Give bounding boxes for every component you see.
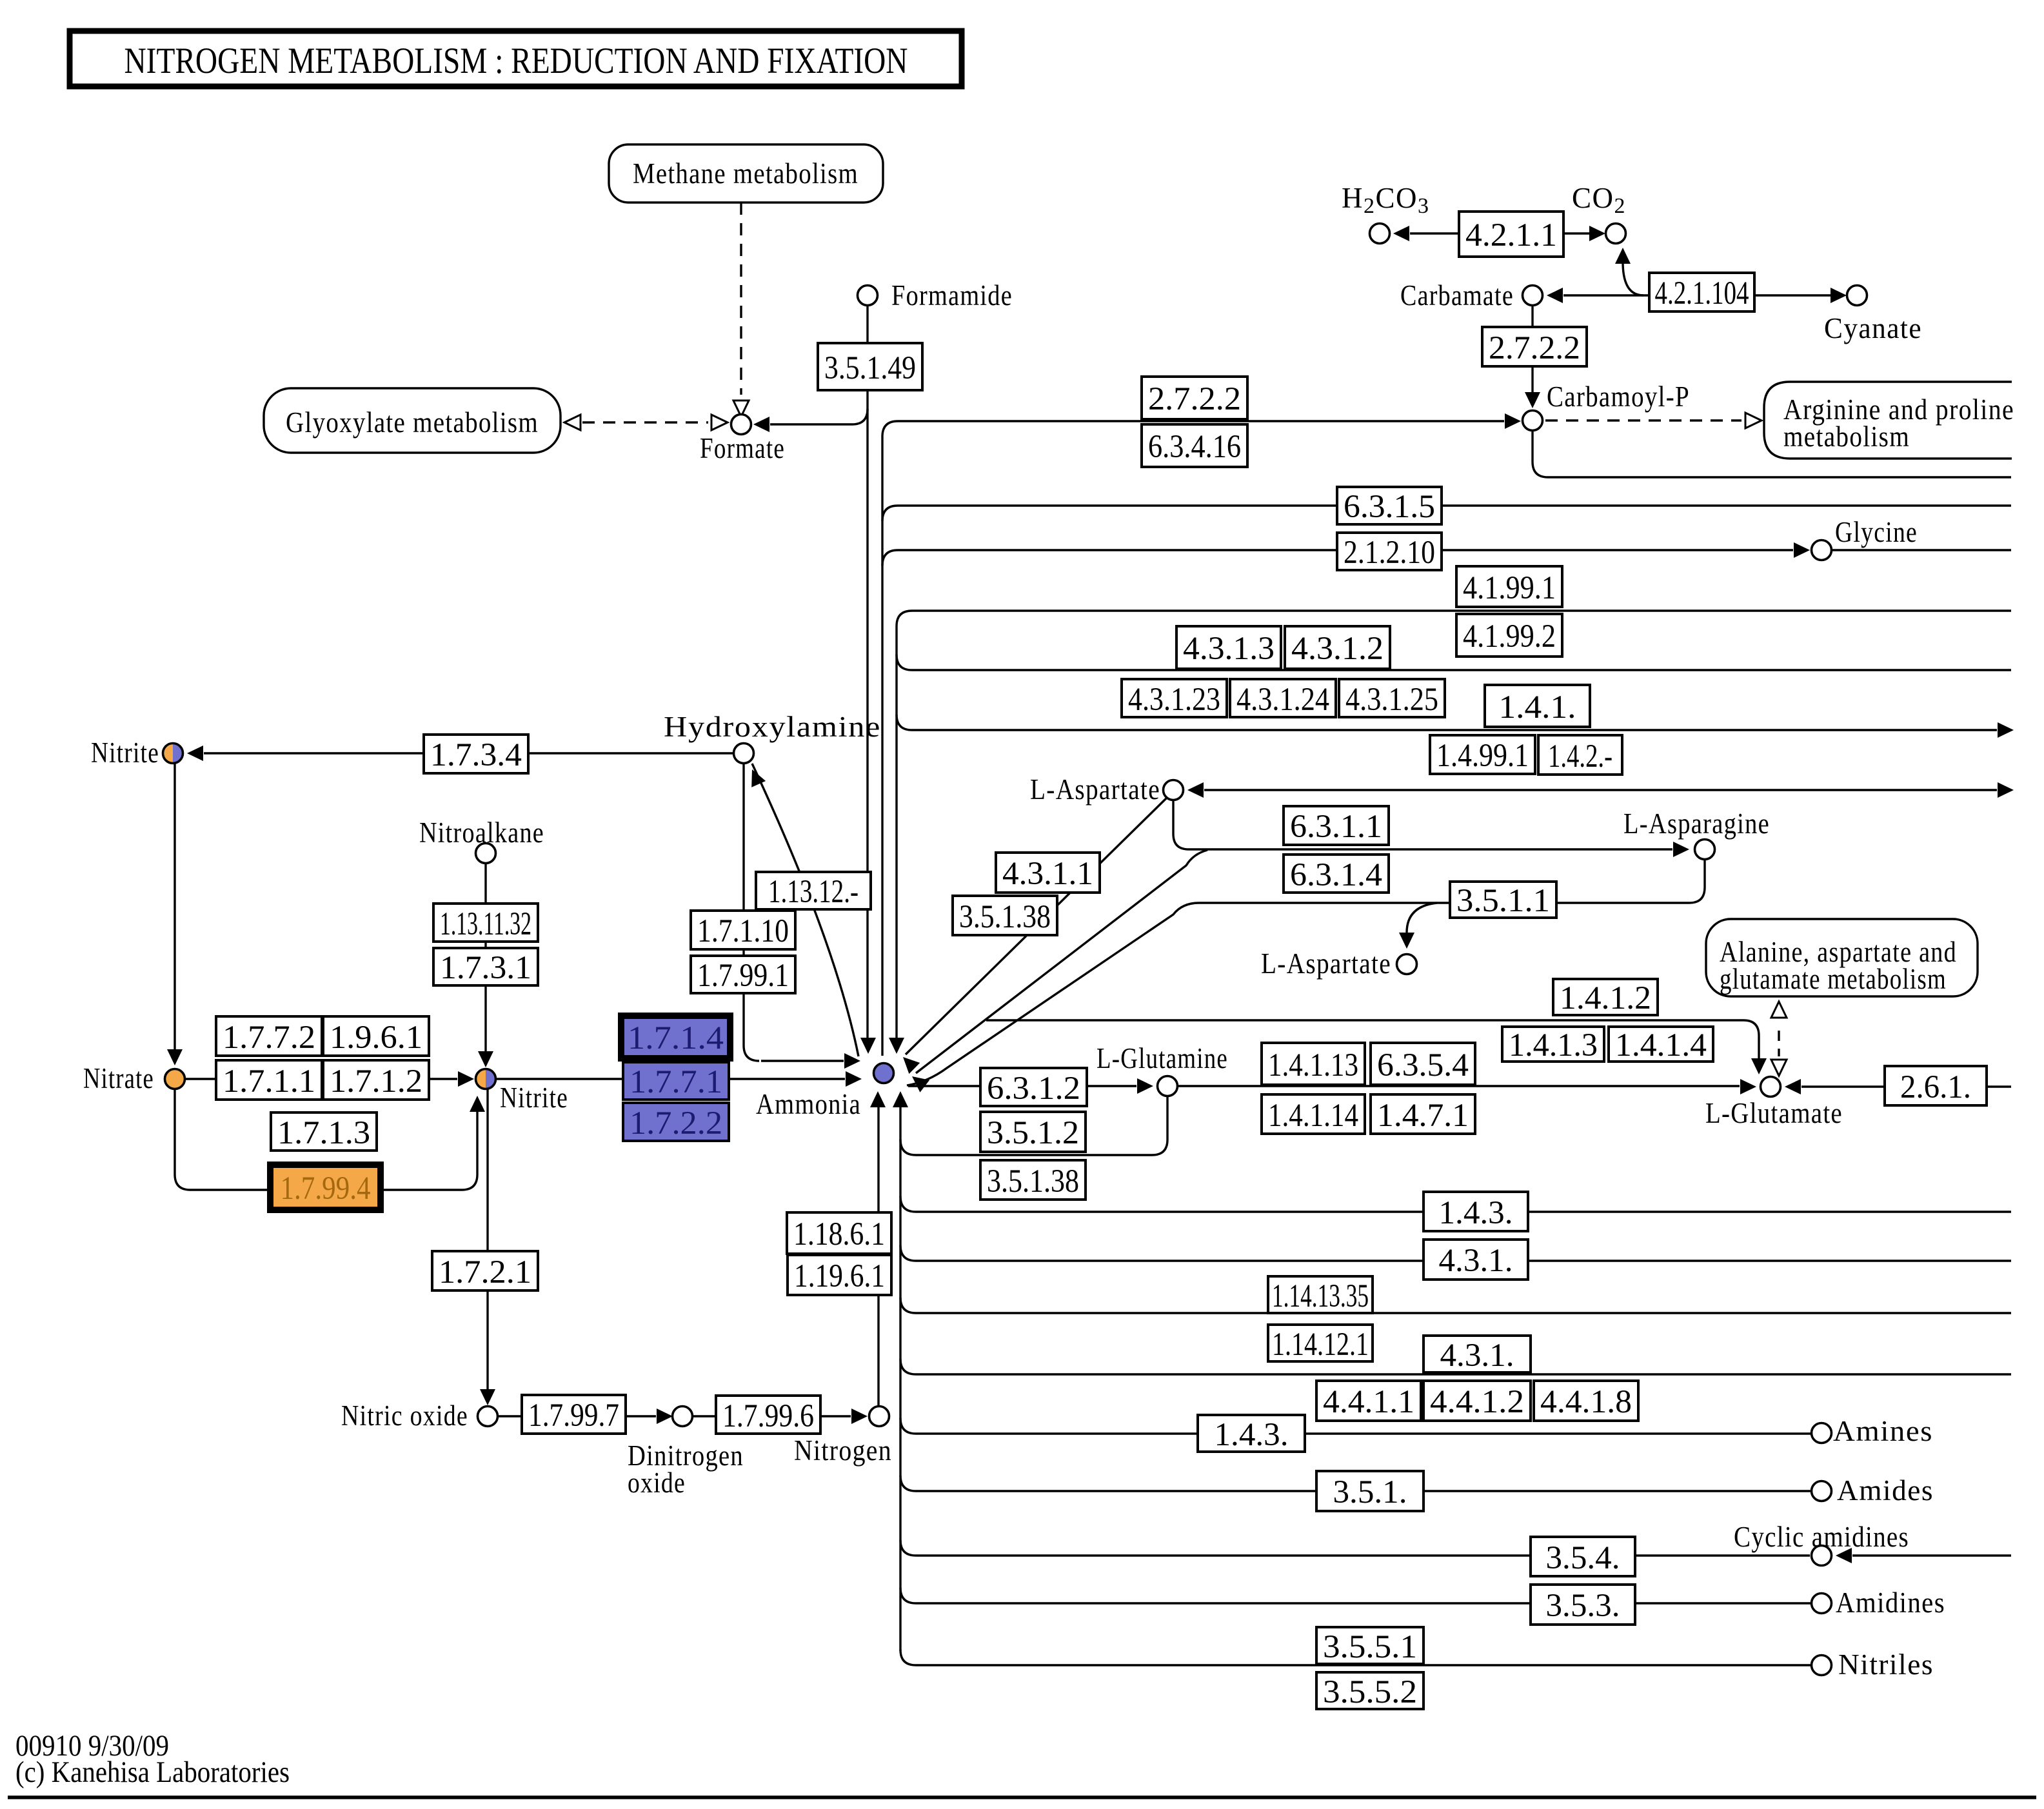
svg-text:Nitrite: Nitrite bbox=[91, 736, 159, 769]
svg-text:4.3.1.23: 4.3.1.23 bbox=[1128, 682, 1220, 718]
svg-text:Glyoxylate metabolism: Glyoxylate metabolism bbox=[286, 406, 539, 439]
svg-text:1.4.1.4: 1.4.1.4 bbox=[1615, 1027, 1707, 1063]
svg-text:4.1.99.2: 4.1.99.2 bbox=[1463, 618, 1556, 655]
svg-text:1.7.3.1: 1.7.3.1 bbox=[440, 950, 531, 986]
arrow trunk3 into Ammonia bbox=[889, 1038, 904, 1054]
svg-text:1.19.6.1: 1.19.6.1 bbox=[794, 1258, 885, 1294]
wire Carbamoyl-P down to right edge bbox=[1533, 431, 2011, 477]
node Arginine and proline metabolism bbox=[1764, 382, 2012, 459]
enzyme box 3.5.4. bbox=[1531, 1537, 1635, 1576]
enzyme box 1.4.2.- bbox=[1538, 735, 1622, 775]
enzyme box 4.3.1.23 bbox=[1122, 679, 1227, 717]
svg-text:L-Aspartate: L-Aspartate bbox=[1030, 773, 1160, 806]
svg-text:1.4.1.13: 1.4.1.13 bbox=[1268, 1047, 1358, 1083]
enzyme box 3.5.1.2 bbox=[980, 1112, 1086, 1152]
open arrow into Glyoxylate box bbox=[564, 415, 580, 430]
svg-text:L-Glutamine: L-Glutamine bbox=[1096, 1042, 1228, 1074]
enzyme box 4.1.99.2 bbox=[1456, 614, 1562, 657]
wire 4.2.1.1 to CO2 bbox=[1563, 232, 1589, 234]
compound Formate bbox=[731, 415, 751, 435]
arrow up into CO2 from cyanate line bbox=[1615, 248, 1631, 264]
wire between boxes bbox=[742, 949, 744, 956]
wire 1.7.3.1 down to Nitrite bbox=[484, 985, 486, 1056]
svg-text:3.5.1.: 3.5.1. bbox=[1333, 1474, 1407, 1510]
svg-text:Nitriles: Nitriles bbox=[1838, 1648, 1934, 1681]
enzyme box 1.9.6.1 bbox=[323, 1016, 429, 1056]
svg-text:glutamate metabolism: glutamate metabolism bbox=[1720, 963, 1947, 995]
wire Formate to vertical bbox=[770, 409, 868, 424]
node Alanine aspartate and glutamate metabolism bbox=[1706, 919, 1978, 996]
svg-text:4.3.1.25: 4.3.1.25 bbox=[1345, 682, 1438, 718]
wire to Nitrogen arrow bbox=[820, 1415, 851, 1417]
enzyme box 3.5.1.38 lower bbox=[980, 1160, 1086, 1200]
wire trunk2 x1368 bbox=[881, 437, 883, 1056]
arrow into L-Glutamate from left bbox=[1740, 1079, 1756, 1094]
compound Nitric oxide bbox=[478, 1407, 498, 1427]
svg-text:1.7.1.4: 1.7.1.4 bbox=[628, 1020, 724, 1056]
svg-text:1.14.12.1: 1.14.12.1 bbox=[1272, 1327, 1369, 1363]
svg-text:3.5.1.38: 3.5.1.38 bbox=[987, 1163, 1079, 1200]
enzyme box 6.3.4.16 bbox=[1142, 424, 1247, 467]
wire 2.6.1. right bbox=[1987, 1085, 2011, 1087]
compound L-Glutamine bbox=[1158, 1076, 1178, 1096]
svg-text:2.7.2.2: 2.7.2.2 bbox=[1148, 381, 1241, 417]
enzyme box 4.3.1. lower bbox=[1424, 1336, 1531, 1372]
svg-text:1.14.13.35: 1.14.13.35 bbox=[1272, 1278, 1369, 1314]
compound Cyclic amidines bbox=[1812, 1546, 1832, 1566]
svg-text:Nitrate: Nitrate bbox=[83, 1062, 154, 1094]
arrow into Nitrogen bbox=[851, 1409, 868, 1424]
svg-text:3.5.3.: 3.5.3. bbox=[1546, 1588, 1620, 1624]
wire L-Aspartate down to row1317 bbox=[1173, 800, 1672, 849]
enzyme box 1.7.2.1 bbox=[432, 1251, 538, 1290]
wire 1.18.6.1 up to hub bbox=[877, 1100, 879, 1212]
svg-text:1.7.99.4: 1.7.99.4 bbox=[281, 1171, 371, 1207]
wire curve cyanate line to CO2 arrow bbox=[1623, 262, 1643, 295]
wire row653 from trunk2 bbox=[882, 421, 1504, 437]
svg-text:2.1.2.10: 2.1.2.10 bbox=[1344, 535, 1435, 571]
svg-text:Cyanate: Cyanate bbox=[1824, 312, 1922, 344]
wire row947 bbox=[897, 611, 2011, 626]
enzyme box 1.4.99.1 bbox=[1430, 735, 1535, 774]
svg-text:1.4.1.2: 1.4.1.2 bbox=[1560, 980, 1651, 1016]
svg-text:3.5.1.2: 3.5.1.2 bbox=[987, 1115, 1079, 1151]
wire fan row y2036 bbox=[900, 1298, 2011, 1313]
wire fan row y1955 bbox=[900, 1245, 2011, 1261]
svg-text:1.7.3.4: 1.7.3.4 bbox=[430, 737, 522, 773]
arrow into L-Glutamate from right bbox=[1785, 1079, 1801, 1094]
enzyme box 1.4.3. upper bbox=[1424, 1192, 1528, 1231]
svg-text:1.4.1.: 1.4.1. bbox=[1499, 689, 1576, 726]
svg-text:3.5.5.1: 3.5.5.1 bbox=[1323, 1629, 1417, 1665]
wire trunk5 x1396 bbox=[899, 1100, 901, 1651]
svg-text:1.4.1.3: 1.4.1.3 bbox=[1509, 1027, 1598, 1063]
svg-text:4.3.1.24: 4.3.1.24 bbox=[1236, 682, 1329, 718]
compound Nitroalkane bbox=[476, 844, 496, 864]
compound Hydroxylamine bbox=[734, 744, 754, 764]
wire dashed Carbamoyl-P to Arginine bbox=[1545, 419, 1741, 421]
arrow row1582 into L-Glutamate bbox=[1751, 1058, 1767, 1074]
open arrow up to Alanine box bbox=[1771, 1002, 1787, 1018]
arrow into Dinitrogen oxide bbox=[657, 1409, 673, 1424]
enzyme box 4.4.1.8 bbox=[1534, 1381, 1638, 1421]
wire L-Asparagine down to row1400 bbox=[907, 860, 1705, 1085]
enzyme box 4.2.1.1 bbox=[1459, 212, 1563, 257]
enzyme box 1.7.99.4 highlighted bbox=[270, 1165, 381, 1210]
open arrow into Arginine box bbox=[1745, 413, 1761, 428]
enzyme box 1.14.12.1 bbox=[1268, 1325, 1373, 1361]
wire branch to L-Aspartate lower bbox=[1407, 903, 1437, 936]
arrow into L-Glutamine bbox=[1137, 1078, 1153, 1094]
svg-text:Ammonia: Ammonia bbox=[756, 1088, 861, 1120]
wire row784 6.3.1.5 bbox=[882, 506, 2011, 521]
wire L-Glutamine to L-Glutamate bbox=[1178, 1085, 1740, 1087]
enzyme box 1.7.1.4 highlighted bbox=[621, 1016, 730, 1058]
wire Nitrite mid to blue boxes bbox=[496, 1078, 623, 1080]
enzyme box 4.3.1.24 bbox=[1230, 679, 1336, 717]
compound H2CO3 bbox=[1370, 224, 1390, 244]
svg-text:1.4.2.-: 1.4.2.- bbox=[1548, 738, 1612, 775]
wire row1582 bbox=[986, 1020, 1759, 1063]
compound Glycine bbox=[1812, 540, 1832, 560]
enzyme box 1.7.2.2 highlighted bbox=[623, 1103, 729, 1141]
svg-text:4.3.1.1: 4.3.1.1 bbox=[1002, 856, 1093, 892]
svg-text:Amidines: Amidines bbox=[1836, 1587, 1945, 1619]
enzyme box 6.3.1.5 bbox=[1337, 487, 1442, 524]
compound L-Asparagine bbox=[1695, 840, 1715, 860]
arrow into Cyclic amidines bbox=[1836, 1548, 1852, 1563]
arrow into L-Aspartate lower bbox=[1399, 933, 1414, 949]
compound Amides bbox=[1812, 1481, 1832, 1501]
svg-text:4.3.1.: 4.3.1. bbox=[1439, 1243, 1513, 1279]
arrow trunk1 into Ammonia bbox=[860, 1038, 876, 1054]
svg-text:1.4.3.: 1.4.3. bbox=[1439, 1195, 1513, 1231]
compound L-Glutamate bbox=[1761, 1077, 1781, 1097]
wire row1168 left bbox=[204, 752, 424, 754]
svg-text:1.7.2.2: 1.7.2.2 bbox=[630, 1105, 722, 1142]
arrow into L-Asparagine bbox=[1673, 842, 1689, 857]
compound Carbamate bbox=[1523, 286, 1543, 306]
svg-text:1.7.1.3: 1.7.1.3 bbox=[277, 1115, 370, 1151]
svg-text:1.18.6.1: 1.18.6.1 bbox=[793, 1216, 885, 1252]
arrow into CO2 bbox=[1589, 226, 1605, 241]
wire diagonal A hub to L-Aspartate bbox=[906, 798, 1166, 1054]
svg-text:2.6.1.: 2.6.1. bbox=[1900, 1069, 1971, 1105]
wire L-Aspartate row right bbox=[1204, 789, 1997, 791]
svg-text:Methane metabolism: Methane metabolism bbox=[633, 157, 858, 190]
svg-text:NITROGEN METABOLISM : REDUCTI: NITROGEN METABOLISM : REDUCTION AND FIXA… bbox=[124, 41, 908, 81]
svg-text:6.3.1.1: 6.3.1.1 bbox=[1290, 809, 1382, 845]
enzyme box 4.2.1.104 bbox=[1649, 273, 1754, 311]
enzyme box 2.6.1. bbox=[1885, 1066, 1987, 1105]
wire Hydroxylamine down bbox=[742, 764, 744, 911]
svg-text:1.7.1.1: 1.7.1.1 bbox=[223, 1063, 315, 1100]
compound L-Aspartate upper bbox=[1164, 780, 1184, 800]
wire fan row y2312 bbox=[900, 1476, 1811, 1491]
svg-text:1.4.1.14: 1.4.1.14 bbox=[1268, 1098, 1358, 1134]
svg-text:1.4.3.: 1.4.3. bbox=[1215, 1417, 1289, 1453]
arrow into Nitric oxide bbox=[480, 1389, 495, 1405]
wire dashed Glyoxylate-Formate bbox=[582, 421, 708, 423]
arrow into Glycine bbox=[1794, 542, 1810, 558]
svg-text:1.7.1.10: 1.7.1.10 bbox=[697, 913, 789, 949]
arrow into Formate from right bbox=[753, 417, 769, 432]
wire row1645 into hub bbox=[761, 1060, 844, 1062]
wire H2CO3 to 4.2.1.1 bbox=[1410, 232, 1459, 234]
wire fan row y2131 bbox=[900, 1359, 2011, 1374]
enzyme box 3.5.1.49 bbox=[818, 343, 922, 390]
svg-text:Amides: Amides bbox=[1837, 1474, 1934, 1507]
svg-text:1.7.7.1: 1.7.7.1 bbox=[630, 1064, 722, 1100]
enzyme box 6.3.1.2 bbox=[980, 1068, 1087, 1106]
svg-text:oxide: oxide bbox=[628, 1467, 686, 1499]
svg-text:3.5.1.49: 3.5.1.49 bbox=[824, 350, 916, 386]
enzyme box 1.7.1.10 bbox=[691, 911, 795, 949]
enzyme box 1.13.12.- bbox=[756, 872, 871, 909]
enzyme box 3.5.1. bbox=[1316, 1471, 1424, 1511]
enzyme box 1.13.11.32 bbox=[433, 904, 538, 942]
wire trunk3 x1390 bbox=[895, 626, 897, 1043]
wire 1.7.2.1 down bbox=[486, 1290, 488, 1394]
enzyme box 1.7.1.3 bbox=[271, 1112, 377, 1151]
compound Amines bbox=[1812, 1423, 1832, 1443]
wire Carbamate down bbox=[1531, 306, 1533, 327]
wire Dinitrogen to 1.7.99.6 bbox=[693, 1415, 716, 1417]
svg-text:metabolism: metabolism bbox=[1783, 420, 1910, 453]
bottom rule bbox=[8, 1795, 2036, 1799]
arrow below-hub right up bbox=[893, 1091, 908, 1107]
wire Formamide to box bbox=[866, 306, 868, 343]
compound Amidines bbox=[1812, 1594, 1832, 1614]
wire 1.7.99.1 down to hub row bbox=[744, 993, 759, 1061]
wire 4.2.1.104 to Cyanate bbox=[1754, 294, 1831, 296]
svg-text:4.4.1.8: 4.4.1.8 bbox=[1540, 1384, 1632, 1420]
svg-text:Formate: Formate bbox=[700, 432, 785, 464]
wire row1039 bbox=[897, 655, 2011, 670]
enzyme box 1.14.13.35 bbox=[1268, 1276, 1373, 1313]
arrow diagA into hub bbox=[903, 1057, 920, 1074]
svg-text:6.3.1.4: 6.3.1.4 bbox=[1290, 857, 1382, 893]
arrow into H2CO3 bbox=[1393, 226, 1409, 241]
wire diagonal 1.13.12 line bbox=[752, 764, 858, 1056]
wire L-Glutamine down to row1791 bbox=[900, 1096, 1167, 1155]
svg-text:6.3.1.2: 6.3.1.2 bbox=[987, 1071, 1080, 1107]
arrow into Nitrite mid from top bbox=[478, 1051, 493, 1067]
compound L-Aspartate lower bbox=[1397, 954, 1417, 974]
enzyme box 2.1.2.10 bbox=[1337, 533, 1442, 570]
compound Cyanate bbox=[1847, 286, 1867, 306]
enzyme box 1.7.99.1 bbox=[691, 956, 795, 993]
svg-text:1.13.11.32: 1.13.11.32 bbox=[440, 906, 531, 942]
enzyme box 1.4.1.2 bbox=[1553, 979, 1658, 1015]
compound Nitrate bbox=[165, 1069, 185, 1089]
svg-text:6.3.5.4: 6.3.5.4 bbox=[1377, 1047, 1469, 1083]
svg-text:6.3.1.5: 6.3.1.5 bbox=[1344, 489, 1435, 525]
enzyme box 1.7.1.2 bbox=[323, 1060, 429, 1100]
compound Nitrite top-left bbox=[163, 744, 173, 764]
svg-text:Hydroxylamine: Hydroxylamine bbox=[664, 711, 881, 743]
arrow row1645 into hub bbox=[844, 1053, 860, 1069]
node Glyoxylate metabolism bbox=[264, 388, 561, 453]
wire diagonal B row1317 to hub bbox=[916, 850, 1207, 1073]
enzyme box 1.7.7.1 highlighted bbox=[623, 1062, 729, 1100]
wire Cyclic amidines right bbox=[1852, 1554, 2011, 1556]
svg-text:1.4.99.1: 1.4.99.1 bbox=[1436, 738, 1529, 774]
compound Dinitrogen oxide bbox=[673, 1407, 693, 1427]
enzyme box 1.7.99.7 bbox=[522, 1395, 626, 1434]
enzyme box 4.3.1.25 bbox=[1339, 679, 1445, 717]
svg-text:1.7.99.7: 1.7.99.7 bbox=[528, 1398, 619, 1434]
enzyme box 3.5.1.1 bbox=[1450, 882, 1556, 918]
arrow into Cyanate bbox=[1831, 288, 1847, 303]
compound Ammonia hub bbox=[874, 1063, 894, 1083]
svg-text:L-Glutamate: L-Glutamate bbox=[1705, 1097, 1843, 1129]
arrow row653 into Carbamoyl-P bbox=[1505, 413, 1521, 429]
wire fan row y2412 bbox=[900, 1540, 1810, 1556]
compound Carbamoyl-P bbox=[1523, 411, 1543, 431]
enzyme box 2.7.2.2 upper bbox=[1482, 327, 1587, 366]
wire 2.6.1. to L-Glutamate bbox=[1801, 1085, 1885, 1087]
wire fan row y1879 bbox=[900, 1196, 2011, 1212]
wire blue boxes to hub bbox=[729, 1078, 845, 1080]
enzyme box 4.3.1.3 bbox=[1176, 626, 1281, 669]
enzyme box 1.4.1.13 bbox=[1262, 1043, 1365, 1085]
svg-text:Carbamoyl-P: Carbamoyl-P bbox=[1547, 381, 1690, 413]
title box bbox=[70, 31, 962, 86]
svg-text:Formamide: Formamide bbox=[891, 279, 1013, 311]
svg-text:3.5.5.2: 3.5.5.2 bbox=[1323, 1674, 1417, 1710]
svg-text:L-Asparagine: L-Asparagine bbox=[1623, 807, 1770, 840]
arrow into Nitrite TL bbox=[187, 746, 203, 761]
enzyme box 1.7.1.1 bbox=[216, 1060, 322, 1100]
enzyme box 4.3.1.2 bbox=[1285, 626, 1390, 669]
wire Glycine right bbox=[1832, 549, 2011, 551]
wire trunk1 x1345 to hub bbox=[866, 390, 868, 1043]
svg-text:(c) Kanehisa Laboratories: (c) Kanehisa Laboratories bbox=[15, 1755, 290, 1789]
svg-text:Nitrogen: Nitrogen bbox=[794, 1434, 892, 1467]
svg-text:Carbamate: Carbamate bbox=[1400, 279, 1514, 311]
arrow diagB into hub bbox=[912, 1076, 929, 1092]
wire dashed Alanine to L-Glutamate bbox=[1778, 1031, 1780, 1056]
compound Nitrite mid bbox=[475, 1069, 486, 1089]
enzyme box 1.4.1. bbox=[1485, 685, 1590, 727]
svg-text:1.7.2.1: 1.7.2.1 bbox=[439, 1254, 531, 1290]
svg-text:4.2.1.1: 4.2.1.1 bbox=[1465, 217, 1557, 253]
svg-text:4.2.1.104: 4.2.1.104 bbox=[1655, 275, 1749, 311]
wire dashed Methane to Formate bbox=[740, 203, 742, 395]
enzyme box 4.3.1. upper bbox=[1424, 1240, 1528, 1280]
wire row1168 right bbox=[528, 752, 733, 754]
enzyme box 1.4.1.3 bbox=[1502, 1027, 1604, 1062]
wire row1684 bbox=[908, 1085, 1136, 1087]
wire 1.7.99.4 to Nitrite mid bbox=[384, 1107, 477, 1190]
arrow into Carbamoyl-P from top bbox=[1525, 392, 1540, 408]
enzyme box 1.4.3. lower bbox=[1198, 1415, 1305, 1452]
wire Nitroalkane down bbox=[484, 864, 486, 904]
enzyme box 4.4.1.2 bbox=[1424, 1381, 1531, 1421]
svg-text:L-Aspartate: L-Aspartate bbox=[1261, 947, 1391, 980]
arrow into Carbamate bbox=[1547, 288, 1563, 303]
svg-text:1.7.7.2: 1.7.7.2 bbox=[223, 1020, 315, 1056]
wire Carbamate to 4.2.1.104 bbox=[1563, 294, 1649, 296]
arrow L-Aspartate row right end bbox=[1998, 782, 2014, 798]
node Methane metabolism bbox=[609, 144, 883, 203]
enzyme box 6.3.1.4 bbox=[1284, 855, 1389, 893]
open arrow into Formate from Methane bbox=[733, 400, 749, 417]
svg-text:3.5.1.1: 3.5.1.1 bbox=[1456, 883, 1550, 919]
svg-text:Amines: Amines bbox=[1833, 1415, 1933, 1447]
svg-text:1.7.1.2: 1.7.1.2 bbox=[330, 1063, 422, 1100]
wire fan row y2486 bbox=[900, 1588, 1811, 1603]
svg-text:4.4.1.2: 4.4.1.2 bbox=[1430, 1384, 1524, 1420]
enzyme box 1.4.1.4 bbox=[1609, 1027, 1713, 1062]
arrow row1673 into hub bbox=[846, 1071, 862, 1087]
wire 2.7.2.2 to arrow bbox=[1531, 366, 1533, 397]
svg-text:1.7.99.6: 1.7.99.6 bbox=[722, 1398, 814, 1434]
svg-text:1.9.6.1: 1.9.6.1 bbox=[330, 1020, 422, 1056]
wire fan row y2223 bbox=[900, 1418, 1811, 1434]
compound CO2 bbox=[1606, 224, 1626, 244]
svg-text:1.7.99.1: 1.7.99.1 bbox=[697, 958, 789, 994]
enzyme box 1.19.6.1 bbox=[788, 1255, 891, 1295]
enzyme box 2.7.2.2 left bbox=[1142, 377, 1247, 419]
wire row1132 bbox=[897, 715, 1997, 730]
open arrow down into L-Glutamate bbox=[1771, 1060, 1787, 1076]
arrow into Nitrate from top bbox=[167, 1049, 183, 1065]
enzyme box 4.4.1.1 bbox=[1316, 1381, 1421, 1421]
enzyme box 1.4.7.1 bbox=[1371, 1094, 1475, 1134]
enzyme box 3.5.5.2 bbox=[1316, 1672, 1424, 1709]
arrow into L-Aspartate from right bbox=[1187, 782, 1204, 798]
wire Nitrate down to 1.7.99.4 bbox=[175, 1089, 267, 1190]
arrow into Nitrite mid bbox=[458, 1071, 474, 1087]
svg-text:1.13.12.-: 1.13.12.- bbox=[768, 874, 858, 910]
wire Nitric oxide to 1.7.99.7 bbox=[498, 1415, 522, 1417]
wire Nitrogen up bbox=[877, 1295, 879, 1406]
wire between boxes2 bbox=[484, 942, 486, 948]
svg-text:4.4.1.1: 4.4.1.1 bbox=[1323, 1384, 1414, 1420]
enzyme box 3.5.3. bbox=[1531, 1585, 1635, 1625]
svg-text:4.3.1.2: 4.3.1.2 bbox=[1291, 631, 1384, 667]
enzyme box 1.4.1.14 bbox=[1262, 1094, 1365, 1134]
svg-text:Nitric oxide: Nitric oxide bbox=[341, 1399, 468, 1432]
compound Nitrogen bbox=[869, 1407, 889, 1427]
arrow below-hub left up bbox=[870, 1091, 886, 1107]
enzyme box 6.3.5.4 bbox=[1371, 1043, 1475, 1085]
svg-text:3.5.4.: 3.5.4. bbox=[1546, 1540, 1620, 1576]
arrow 1.7.99.4 into Nitrite mid bbox=[470, 1096, 485, 1112]
enzyme box 1.7.3.1 bbox=[433, 948, 538, 985]
enzyme box 1.7.7.2 bbox=[216, 1016, 322, 1056]
enzyme box 4.1.99.1 bbox=[1456, 566, 1562, 607]
enzyme box 6.3.1.1 bbox=[1284, 806, 1389, 845]
svg-text:4.1.99.1: 4.1.99.1 bbox=[1463, 570, 1556, 606]
svg-text:Nitrite: Nitrite bbox=[500, 1082, 568, 1114]
svg-text:2.7.2.2: 2.7.2.2 bbox=[1489, 330, 1580, 366]
wire Nitrate to boxes bbox=[185, 1078, 216, 1080]
enzyme box 4.3.1.1 bbox=[996, 853, 1100, 893]
svg-text:4.3.1.: 4.3.1. bbox=[1440, 1338, 1514, 1374]
open arrow toward Formate bbox=[711, 415, 728, 430]
wire to Dinitrogen arrow bbox=[626, 1415, 656, 1417]
compound Formamide bbox=[858, 286, 878, 306]
enzyme box 1.18.6.1 bbox=[787, 1212, 891, 1254]
svg-text:1.4.7.1: 1.4.7.1 bbox=[1377, 1098, 1469, 1134]
wire Nitrite TL down to Nitrate bbox=[174, 764, 175, 1054]
enzyme box 1.7.99.6 bbox=[716, 1396, 820, 1434]
enzyme box 3.5.1.38 upper bbox=[953, 896, 1057, 935]
svg-text:6.3.4.16: 6.3.4.16 bbox=[1148, 429, 1241, 465]
